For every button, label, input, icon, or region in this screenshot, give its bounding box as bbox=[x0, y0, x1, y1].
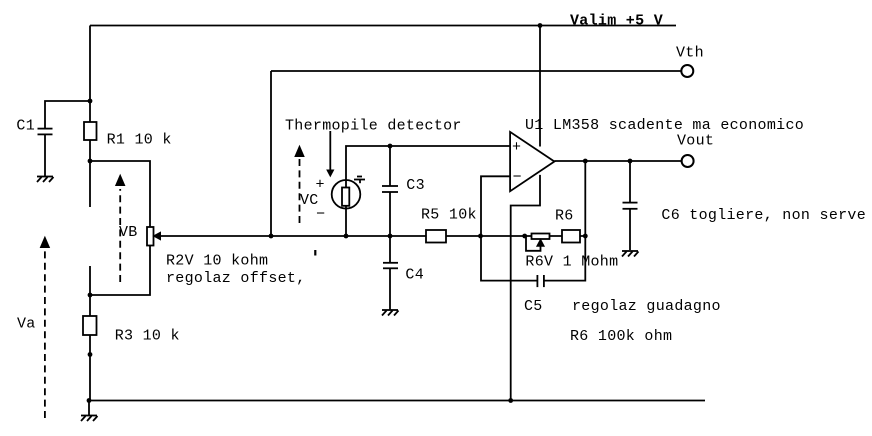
svg-text:+: + bbox=[316, 177, 325, 194]
svg-text:U1 LM358 scadente ma economico: U1 LM358 scadente ma economico bbox=[525, 117, 804, 134]
svg-text:R6: R6 bbox=[555, 207, 574, 224]
svg-text:+: + bbox=[512, 139, 521, 156]
svg-text:regolaz guadagno: regolaz guadagno bbox=[572, 298, 721, 315]
svg-text:C5: C5 bbox=[524, 298, 543, 315]
svg-text:C6 togliere, non serve: C6 togliere, non serve bbox=[661, 207, 866, 224]
svg-text:C4: C4 bbox=[405, 267, 424, 284]
svg-text:C3: C3 bbox=[406, 177, 425, 194]
svg-text:R3 10 k: R3 10 k bbox=[115, 327, 180, 344]
svg-text:Vth: Vth bbox=[676, 44, 704, 61]
svg-text:VB: VB bbox=[119, 224, 138, 241]
svg-text:R1 10 k: R1 10 k bbox=[107, 132, 172, 149]
svg-text:Va: Va bbox=[17, 316, 36, 333]
svg-text:−: − bbox=[513, 169, 522, 186]
svg-text:−: − bbox=[316, 206, 325, 223]
svg-text:R2V 10 kohm: R2V 10 kohm bbox=[166, 253, 268, 270]
svg-text:R6 100k ohm: R6 100k ohm bbox=[570, 328, 672, 345]
svg-text:R6V 1 Mohm: R6V 1 Mohm bbox=[525, 254, 618, 271]
svg-text:R5 10k: R5 10k bbox=[421, 207, 477, 224]
svg-text:Vout: Vout bbox=[677, 133, 714, 150]
svg-text:Thermopile detector: Thermopile detector bbox=[285, 118, 462, 135]
svg-text:regolaz offset,: regolaz offset, bbox=[166, 270, 306, 287]
svg-text:Valim +5 V: Valim +5 V bbox=[570, 12, 663, 29]
svg-text:C1: C1 bbox=[16, 117, 35, 134]
